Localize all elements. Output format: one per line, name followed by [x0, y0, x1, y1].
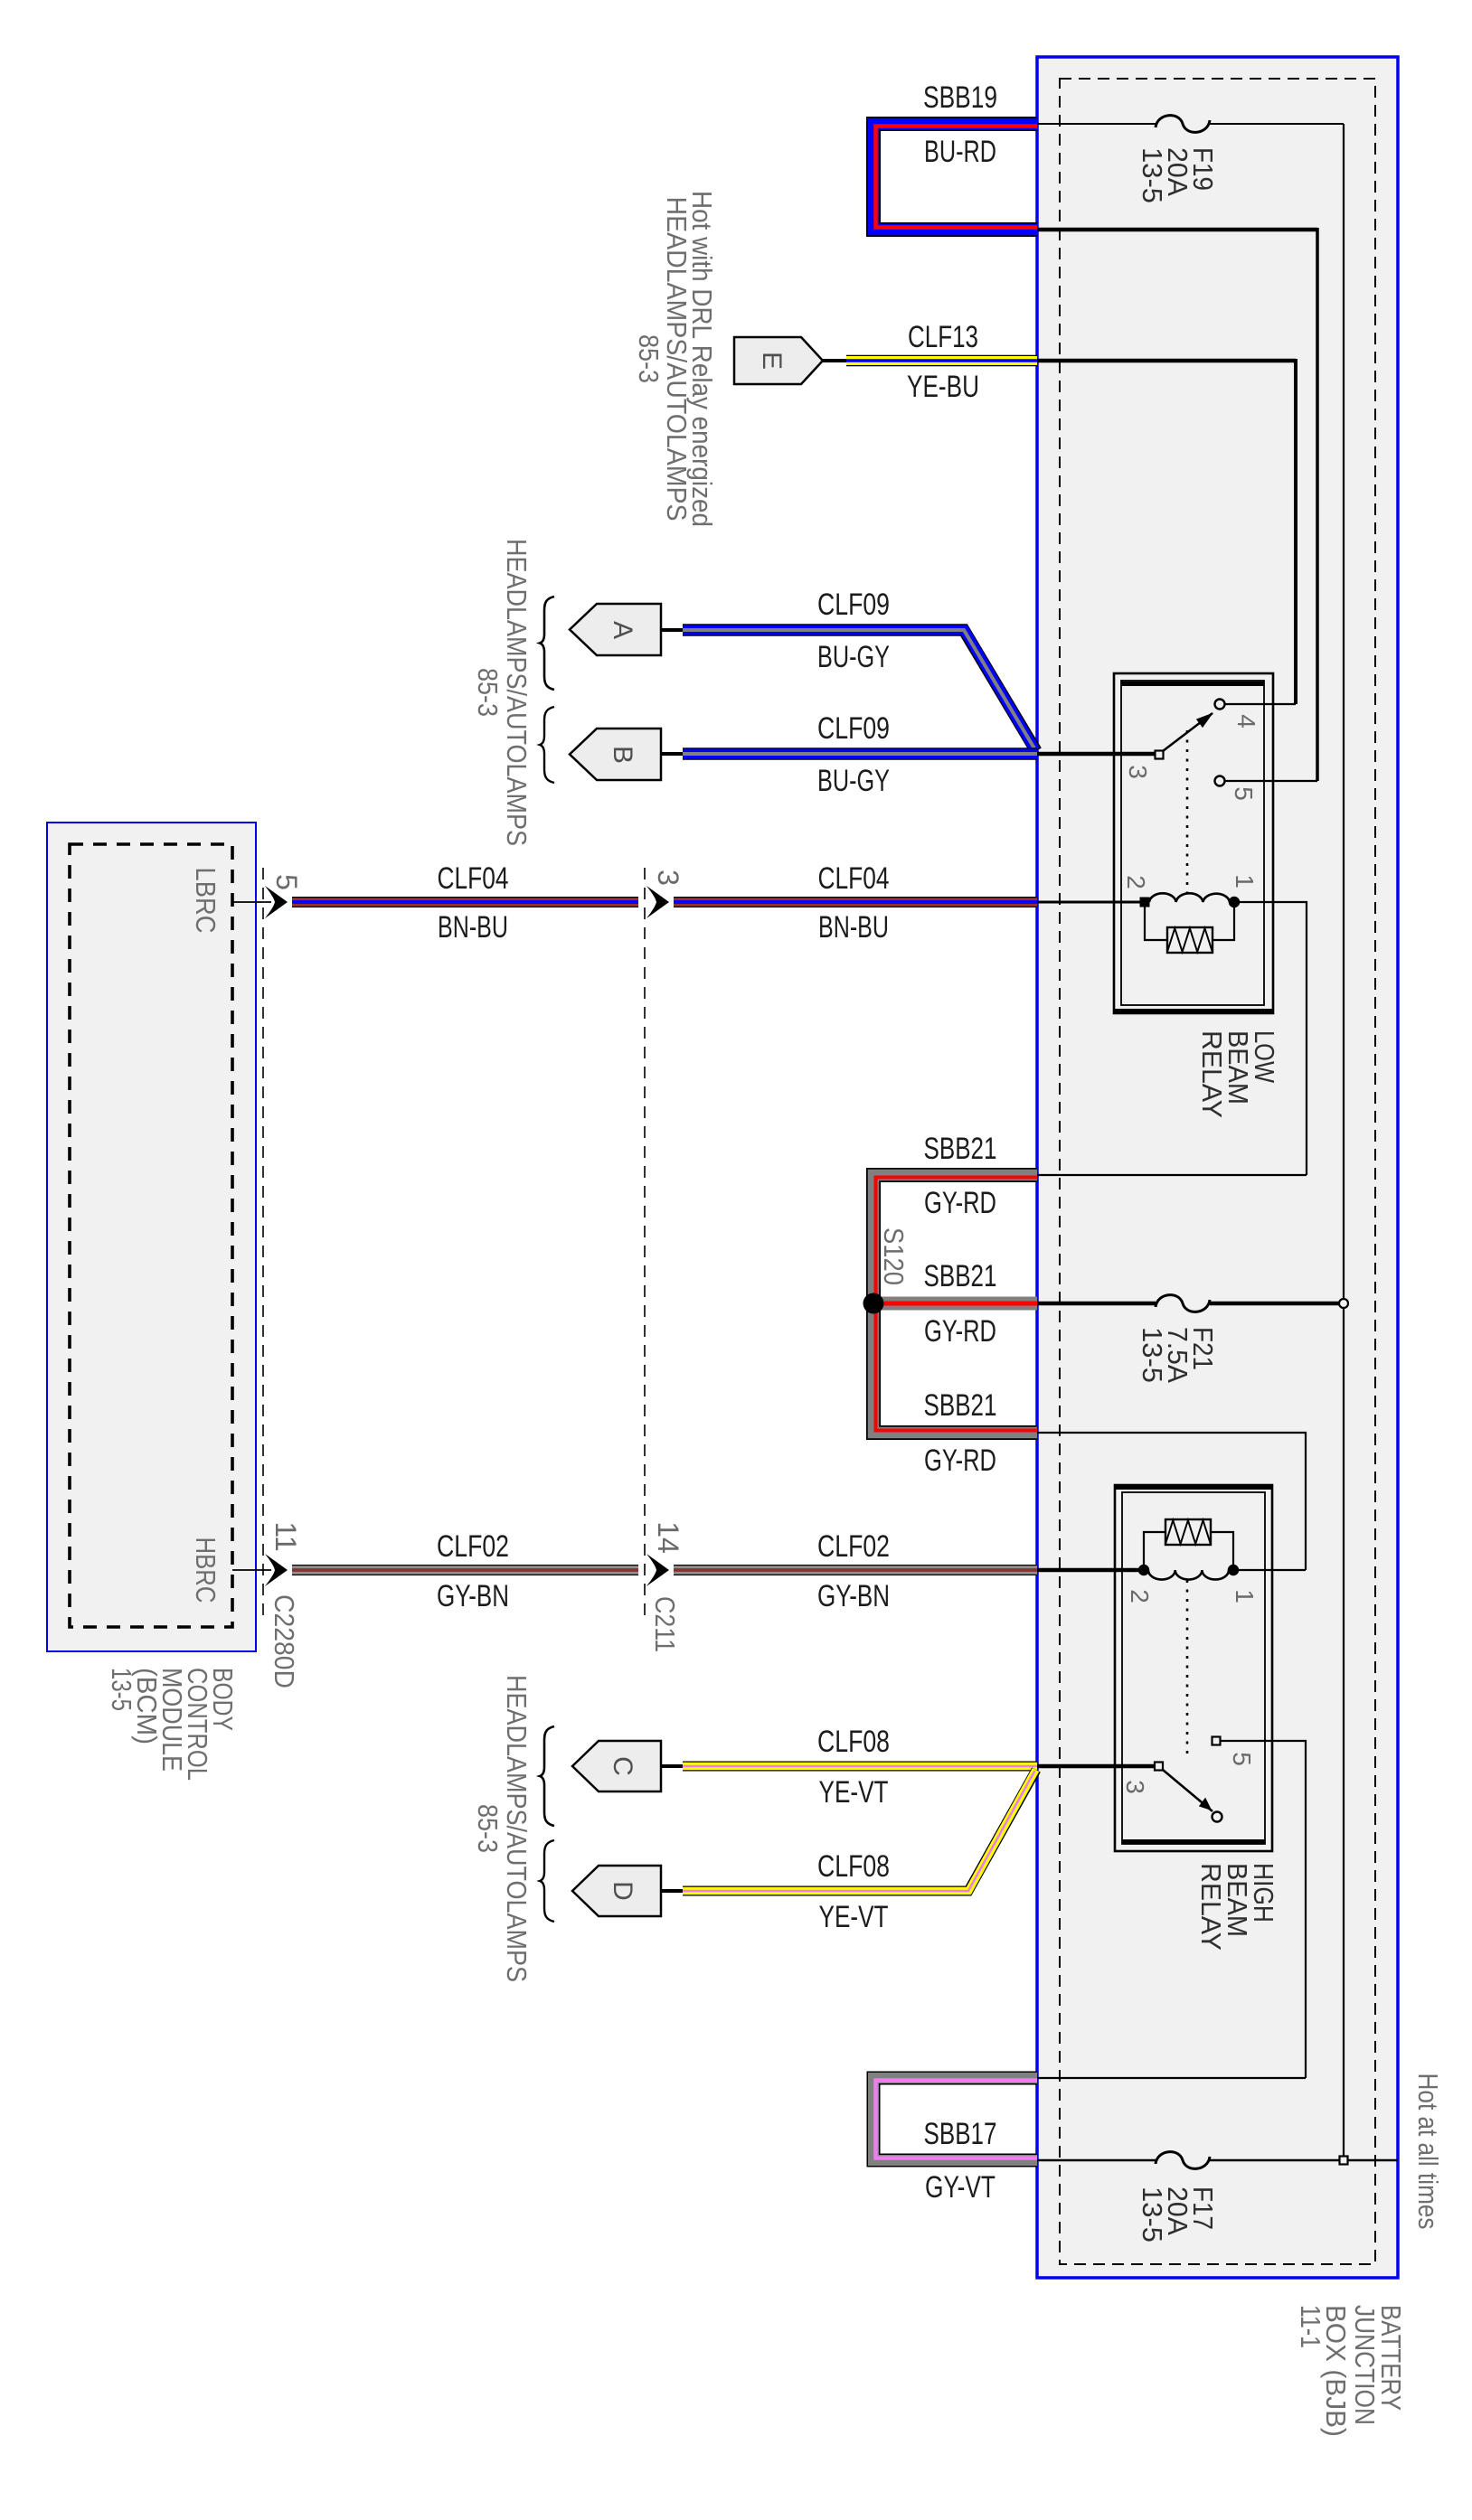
svg-text:CLF04: CLF04: [818, 861, 890, 896]
brace A: [540, 597, 554, 690]
high relay pin 2: [1139, 1566, 1149, 1575]
wire low relay pin 1 to SBB21: [1239, 902, 1307, 1175]
wire CLF09 to low beam relay pin 3: [1037, 752, 1155, 757]
BJB name label: [1295, 2305, 1407, 2437]
svg-text:2: 2: [1126, 1589, 1154, 1603]
svg-text:RELAY: RELAY: [1196, 1030, 1228, 1118]
high beam relay U-box: [1115, 1485, 1272, 1851]
connector A: [570, 604, 661, 655]
svg-text:CLF02: CLF02: [437, 1529, 509, 1564]
svg-text:2: 2: [1122, 875, 1150, 889]
svg-text:C: C: [608, 1756, 637, 1776]
svg-text:13-5: 13-5: [1137, 1327, 1168, 1383]
low relay pin 2: [1140, 898, 1149, 907]
connector B: [570, 729, 661, 780]
svg-text:JUNCTION: JUNCTION: [1349, 2305, 1381, 2425]
high relay switch arm: [1163, 1770, 1213, 1811]
connector C211 dashed line: [644, 868, 646, 1622]
wire CLF13 to low beam relay pin 4: [1037, 359, 1296, 704]
high relay dotted link: [1186, 1580, 1189, 1755]
junction F21 to bus: [1339, 1299, 1348, 1308]
wire stub C: [661, 1764, 684, 1768]
svg-text:GY-BN: GY-BN: [437, 1579, 509, 1613]
svg-text:GY-VT: GY-VT: [925, 2170, 995, 2205]
wire CLF04 into low relay coil: [1037, 901, 1140, 904]
svg-text:4: 4: [1232, 714, 1260, 729]
wire SBB17 to fuse F17: [1037, 2159, 1398, 2161]
wire CLF08 YE-VT from C: [683, 1762, 1037, 1772]
low relay coil: [1149, 893, 1230, 902]
note HEADLAMPS/AUTOLAMPS 85-3 (A/B): [472, 539, 533, 846]
svg-text:RELAY: RELAY: [1195, 1863, 1227, 1951]
svg-text:BU-RD: BU-RD: [924, 135, 996, 169]
low relay dotted link: [1186, 730, 1189, 893]
svg-text:5: 5: [1230, 786, 1258, 801]
low relay pin 5: [1215, 776, 1225, 786]
brace B: [540, 707, 554, 783]
svg-text:14: 14: [652, 1521, 684, 1554]
svg-text:1: 1: [1231, 874, 1259, 889]
svg-text:S120: S120: [878, 1227, 910, 1285]
svg-text:CLF04: CLF04: [438, 861, 509, 896]
fuse F21 label: [1137, 1327, 1219, 1383]
high beam relay name label: [1195, 1863, 1279, 1951]
svg-text:85-3: 85-3: [472, 668, 504, 717]
wire SBB17 GY-VT loop: [873, 2078, 1037, 2160]
svg-text:B: B: [608, 746, 637, 764]
svg-text:HEADLAMPS/AUTOLAMPS: HEADLAMPS/AUTOLAMPS: [661, 197, 693, 522]
svg-text:HEADLAMPS/AUTOLAMPS: HEADLAMPS/AUTOLAMPS: [501, 1675, 533, 1982]
high relay pin 5: [1213, 1737, 1221, 1745]
splice S120: [863, 1293, 884, 1314]
svg-text:GY-RD: GY-RD: [924, 1314, 996, 1349]
wire high relay pin 5 to SBB17: [1037, 1741, 1306, 2078]
low beam relay name label: [1196, 1030, 1280, 1118]
junction F17 to bus: [1340, 2157, 1348, 2165]
svg-text:YE-VT: YE-VT: [819, 1900, 889, 1934]
wire CLF08 to high relay pin 3: [1037, 1764, 1155, 1769]
svg-text:SBB21: SBB21: [924, 1259, 997, 1293]
svg-text:13-5: 13-5: [1137, 147, 1168, 203]
low relay switch arm: [1163, 713, 1213, 751]
body control module (BCM): [47, 823, 256, 1651]
svg-text:CLF08: CLF08: [817, 1725, 890, 1759]
svg-text:BN-BU: BN-BU: [438, 910, 508, 945]
svg-text:BN-BU: BN-BU: [818, 910, 889, 945]
svg-text:BU-GY: BU-GY: [817, 640, 890, 674]
wire CLF09 BU-GY from A: [683, 630, 1036, 751]
wire HBRC stub: [232, 1569, 271, 1571]
brace D: [540, 1840, 554, 1922]
wire CLF02 into high relay coil: [1037, 1568, 1139, 1573]
svg-text:13-5: 13-5: [106, 1668, 137, 1711]
svg-text:CLF08: CLF08: [817, 1849, 890, 1884]
high relay resistor: [1144, 1519, 1233, 1567]
high relay coil: [1148, 1570, 1229, 1580]
low relay pin 1: [1230, 898, 1240, 907]
svg-text:5: 5: [270, 874, 303, 890]
svg-text:E: E: [757, 352, 787, 370]
svg-text:GY-RD: GY-RD: [924, 1443, 996, 1478]
brace C: [540, 1726, 554, 1826]
wire CLF02 GY-BN segment 2: [674, 1565, 1037, 1575]
svg-text:CLF13: CLF13: [908, 320, 978, 354]
svg-text:CLF02: CLF02: [817, 1529, 890, 1564]
svg-text:HBRC: HBRC: [190, 1537, 222, 1603]
connector E: [734, 337, 823, 384]
svg-text:SBB19: SBB19: [923, 80, 997, 115]
wire SBB21 middle to fuse F21: [1037, 1302, 1339, 1306]
svg-text:13-5: 13-5: [1137, 2186, 1168, 2243]
svg-text:YE-BU: YE-BU: [907, 370, 979, 404]
svg-text:CLF09: CLF09: [817, 588, 890, 622]
wire CLF08 YE-VT from D: [683, 1770, 1036, 1891]
wire SBB21 top inside BJB: [1037, 1174, 1307, 1176]
svg-text:SBB17: SBB17: [924, 2117, 997, 2151]
wire SBB21 bottom inside BJB: [1037, 1433, 1306, 1570]
low beam relay U-box: [1114, 673, 1273, 1013]
wire F19 feed inside BJB: [1037, 123, 1344, 125]
wire stub D: [661, 1889, 684, 1893]
fuse F19: [1156, 116, 1210, 133]
connector C: [572, 1741, 661, 1791]
wire SBB19 BU-RD loop: [873, 124, 1037, 230]
wire SBB19 to low beam relay pin 5: [1037, 228, 1317, 781]
high relay pin 3: [1155, 1763, 1163, 1771]
svg-text:85-3: 85-3: [472, 1804, 504, 1853]
fuse F21: [1156, 1295, 1210, 1312]
svg-text:85-3: 85-3: [633, 334, 665, 383]
BCM name label: [106, 1668, 239, 1781]
svg-text:SBB21: SBB21: [924, 1388, 997, 1423]
wire stub B: [661, 752, 684, 756]
svg-text:3: 3: [1124, 765, 1152, 779]
connector arrow C211 pin 14: [646, 1554, 669, 1586]
low relay pin 3: [1156, 751, 1164, 759]
wire SBB21 GY-RD middle segment: [873, 1297, 1037, 1311]
svg-text:5: 5: [1228, 1752, 1256, 1766]
svg-text:HEADLAMPS/AUTOLAMPS: HEADLAMPS/AUTOLAMPS: [501, 539, 533, 846]
hot-at-all-times bus wire: [1343, 124, 1345, 2160]
wire LBRC stub: [232, 901, 271, 903]
wire CLF02 GY-BN segment 1: [292, 1565, 638, 1575]
svg-text:3: 3: [652, 870, 684, 886]
svg-text:GY-BN: GY-BN: [817, 1579, 890, 1613]
svg-text:11-1: 11-1: [1295, 2305, 1326, 2348]
svg-text:1: 1: [1231, 1589, 1259, 1603]
connector C2280D dashed line: [262, 868, 264, 1622]
svg-text:SBB21: SBB21: [924, 1132, 997, 1166]
wire SBB21 GY-RD loop: [873, 1175, 1037, 1433]
svg-text:LBRC: LBRC: [190, 868, 222, 934]
svg-text:Hot at all times: Hot at all times: [1412, 2073, 1444, 2230]
connector arrow C211 pin 3: [646, 886, 669, 918]
svg-text:YE-VT: YE-VT: [819, 1775, 889, 1810]
wire CLF09 BU-GY from B: [683, 748, 1037, 760]
svg-text:11: 11: [269, 1521, 302, 1551]
fuse F17: [1156, 2152, 1210, 2169]
low relay resistor: [1145, 905, 1234, 953]
svg-text:3: 3: [1121, 1780, 1149, 1794]
high relay pin 1: [1229, 1566, 1239, 1575]
wire stub E: [823, 359, 848, 362]
svg-text:C2280D: C2280D: [269, 1594, 300, 1688]
note Hot with DRL Relay energized: [633, 191, 718, 527]
fuse F19 label: [1137, 147, 1219, 203]
note HEADLAMPS/AUTOLAMPS 85-3 (C/D): [472, 1675, 533, 1982]
connector arrow pin 11: [265, 1554, 288, 1586]
wire CLF13 YE-BU: [846, 355, 1037, 367]
svg-text:GY-RD: GY-RD: [924, 1186, 996, 1220]
connector arrow pin 5: [265, 886, 288, 918]
wire CLF04 BN-BU segment 1: [292, 897, 638, 907]
wire CLF04 BN-BU segment 2: [674, 897, 1037, 907]
low relay pin 4: [1215, 700, 1225, 710]
connector D: [572, 1866, 661, 1916]
high relay arm end contact: [1213, 1812, 1222, 1822]
svg-text:D: D: [608, 1881, 637, 1901]
fuse F17 label: [1137, 2186, 1219, 2243]
svg-text:A: A: [608, 621, 637, 639]
wire stub A: [661, 628, 684, 632]
svg-text:BU-GY: BU-GY: [817, 764, 890, 798]
svg-text:CLF09: CLF09: [817, 711, 890, 746]
battery junction box (BJB): [1037, 57, 1398, 2278]
svg-text:C211: C211: [649, 1596, 681, 1652]
